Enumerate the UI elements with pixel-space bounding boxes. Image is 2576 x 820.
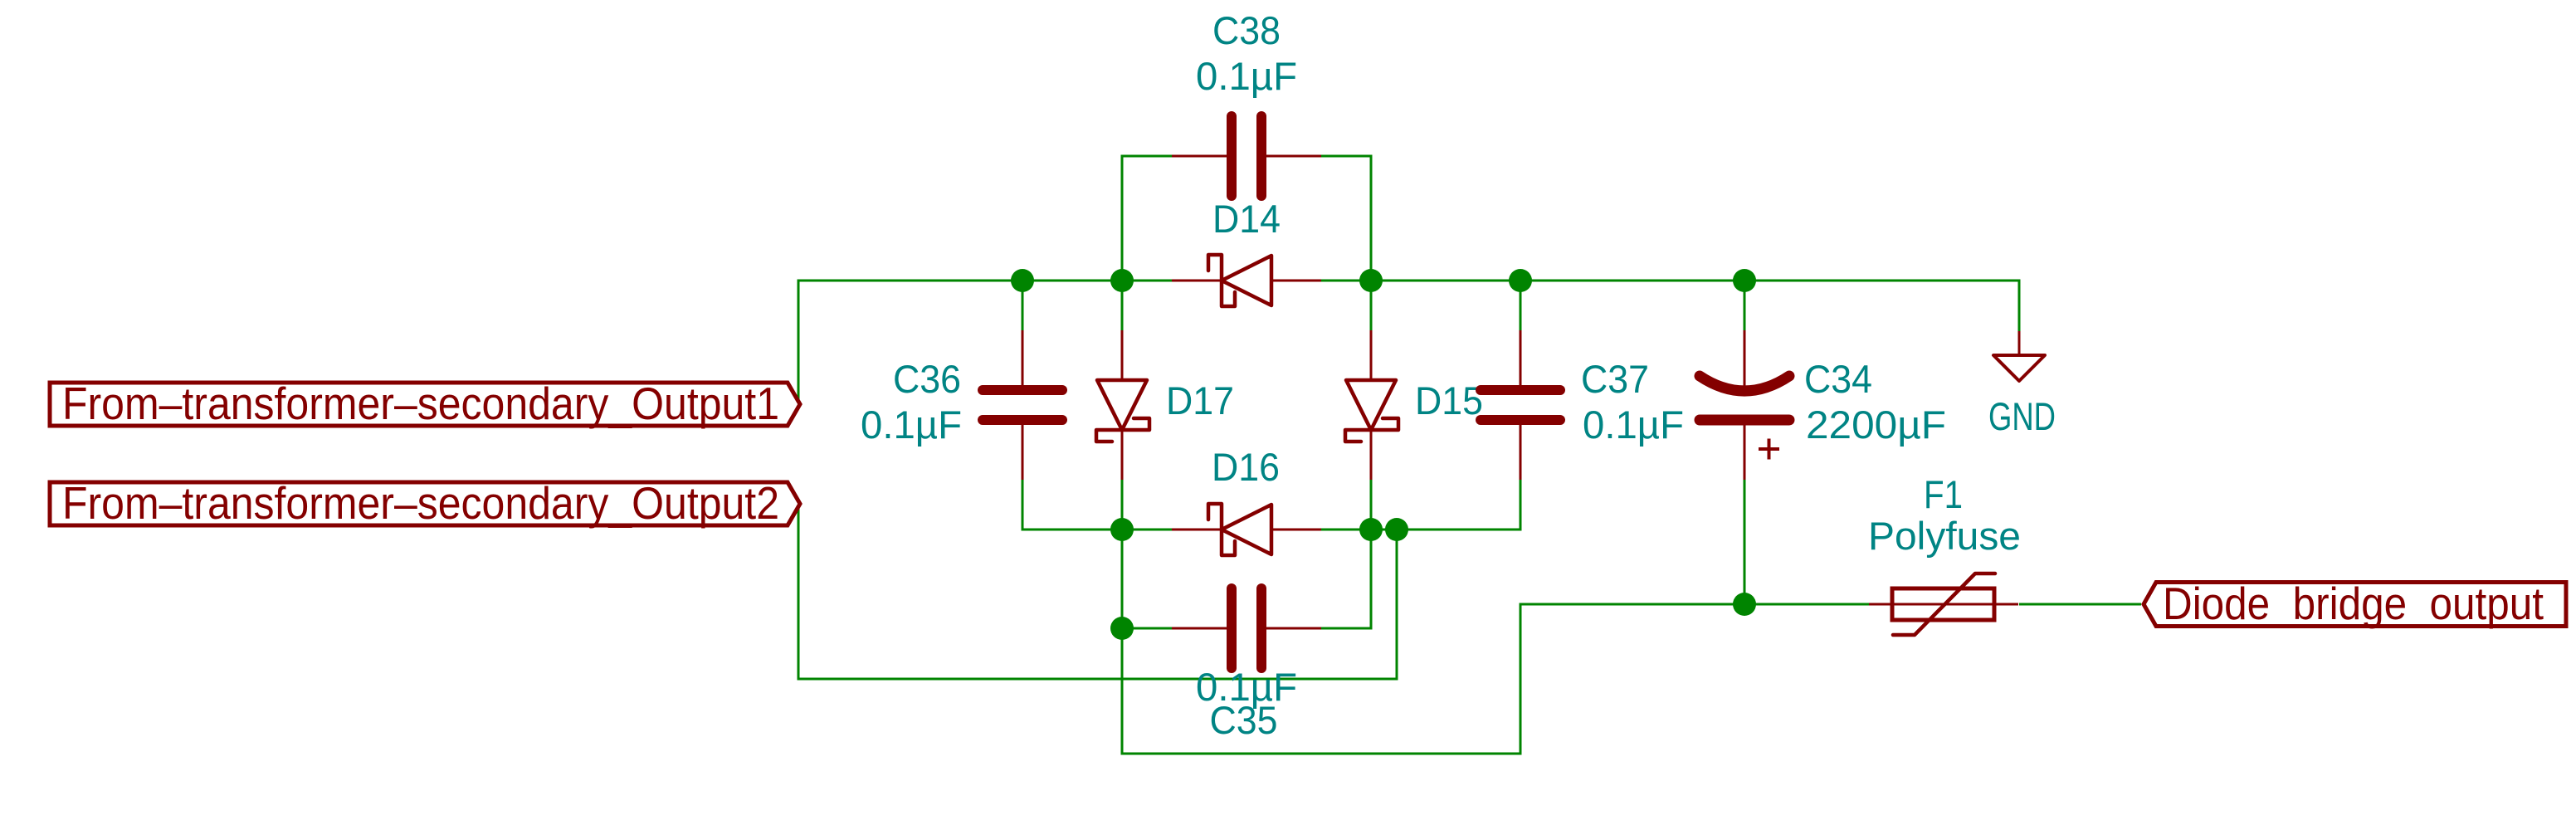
wire C35 right riser [1370, 530, 1373, 630]
svg-text:0.1µF: 0.1µF [861, 403, 962, 447]
wire C38 left riser [1121, 155, 1124, 281]
global label From-transformer-secondary_Output1 [50, 383, 800, 426]
diode D14 [1172, 280, 1222, 282]
svg-text:D15: D15 [1415, 378, 1483, 422]
svg-text:F1: F1 [1924, 472, 1963, 516]
wire top bus left segment [798, 280, 1173, 282]
capacitor C36 [1022, 330, 1024, 385]
svg-text:D17: D17 [1166, 378, 1234, 422]
wire D17 top stub [1121, 281, 1124, 330]
svg-text:C35: C35 [1210, 698, 1278, 742]
svg-text:D14: D14 [1212, 197, 1281, 241]
junction top bus / D17 [1110, 269, 1134, 292]
diode D16 [1172, 529, 1222, 531]
wire C35 left stub [1122, 627, 1172, 630]
svg-text:From–transformer–secondary_Out: From–transformer–secondary_Output1 [62, 378, 779, 429]
wire C34 top stub [1744, 281, 1746, 330]
svg-text:C36: C36 [893, 357, 961, 401]
svg-text:2200µF: 2200µF [1806, 403, 1946, 447]
wire D17 column lower riser [1121, 530, 1124, 755]
svg-text:GND: GND [1988, 394, 2056, 438]
wire F1 row left segment [1520, 603, 1870, 606]
svg-text:D16: D16 [1212, 445, 1280, 489]
svg-text:0.1µF: 0.1µF [1583, 403, 1684, 447]
wire C38 row left stub [1121, 155, 1173, 158]
wire D17 bottom stub [1121, 480, 1124, 530]
diode D17 [1121, 330, 1124, 380]
wire D15 top stub [1370, 281, 1373, 330]
wire GND branch horizontal [1744, 280, 2019, 282]
svg-text:Diode_bridge_output: Diode_bridge_output [2163, 578, 2544, 629]
junction D16 row / C35 right [1359, 518, 1383, 541]
wire label1 drop [798, 280, 800, 406]
junction F1 row / C34 [1733, 593, 1756, 616]
wire C36 top stub [1022, 281, 1024, 330]
wire C37 bottom stub [1520, 480, 1522, 531]
wire D15 bottom stub [1370, 480, 1373, 530]
junction top bus / C36 [1011, 269, 1034, 292]
svg-text:From–transformer–secondary_Out: From–transformer–secondary_Output2 [62, 477, 779, 529]
wire C38 row right stub [1321, 155, 1373, 158]
ground GND symbol [2018, 331, 2021, 354]
capacitor C37 [1520, 330, 1522, 385]
junction top bus / D15 [1359, 269, 1383, 292]
svg-text:0.1µF: 0.1µF [1196, 54, 1297, 98]
wire D16 row right segment [1321, 529, 1522, 531]
svg-text:C37: C37 [1581, 357, 1649, 401]
capacitor C34 (polarized) [1744, 330, 1746, 393]
junction D16 row / label2 riser [1385, 518, 1408, 541]
wire label2 drop [798, 505, 800, 681]
svg-text:C34: C34 [1804, 357, 1872, 401]
wire D16 row left segment [1022, 529, 1173, 531]
capacitor C35 [1172, 627, 1227, 630]
diode D15 [1370, 330, 1373, 380]
global label Diode_bridge_output [2144, 583, 2566, 627]
svg-text:Polyfuse: Polyfuse [1868, 514, 2021, 558]
junction C35 row / left column [1110, 617, 1134, 640]
junction top bus / C37 [1509, 269, 1532, 292]
wire second junction riser [1396, 530, 1398, 679]
capacitor C38 [1172, 155, 1227, 158]
wire C34 bottom riser [1744, 480, 1746, 604]
wire top bus right segment [1321, 280, 2021, 282]
junction top bus / C34 [1733, 269, 1756, 292]
junction D16 row / D17 column [1110, 518, 1134, 541]
wire bottom horizontal [1121, 753, 1522, 755]
global label From-transformer-secondary_Output2 [50, 482, 800, 525]
fuse F1 (polyfuse) [1869, 603, 2018, 606]
wire C36 bottom stub [1022, 480, 1024, 531]
wire F1 row right segment [2019, 603, 2141, 606]
wire C35 right stub [1321, 627, 1373, 630]
wire GND drop [2018, 280, 2021, 332]
wire C37 top stub [1520, 281, 1522, 330]
svg-text:C38: C38 [1212, 8, 1281, 52]
wire C37 column lower riser [1520, 604, 1522, 755]
wire label2 horizontal [798, 678, 1398, 681]
wire C38 right riser [1370, 155, 1373, 281]
